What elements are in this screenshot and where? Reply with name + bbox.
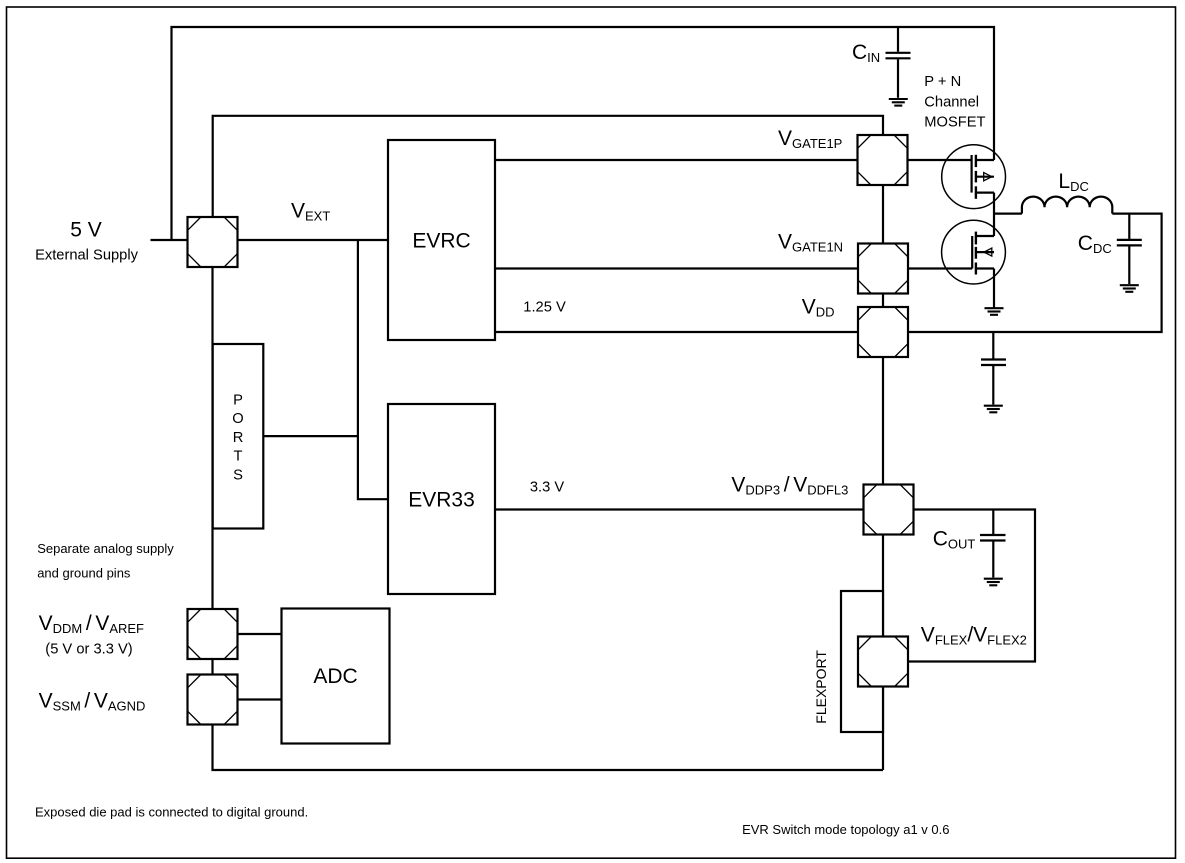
pad VSSM [188,675,238,725]
wire N-MOSFET source to ground [993,269,995,309]
wire VDDM to VSSM pad [211,659,213,675]
wire VDDP3 right loop to VFLEX pad [908,510,1035,662]
svg-text:(5 V or 3.3 V): (5 V or 3.3 V) [45,642,132,658]
svg-text:External Supply: External Supply [35,248,139,264]
wire MOSFET midpoint node [993,193,995,236]
svg-text:P: P [233,393,243,409]
svg-text:O: O [232,411,243,427]
svg-text:and ground pins: and ground pins [37,566,131,581]
wire pad VGATE1N to pad VDD [882,294,884,308]
svg-text:5 V: 5 V [70,219,102,242]
wire pad VDDP3 down to pad VFLEX [882,535,884,637]
capacitor COUT [980,510,1006,578]
svg-text:R: R [233,430,244,446]
wire VGATE1N pad to N-MOSFET gate [908,267,972,269]
pad VDDP3 [864,485,914,535]
svg-text:T: T [234,449,243,465]
svg-text:Exposed die pad is connected t: Exposed die pad is connected to digital … [35,805,308,820]
wire VFLEX pad down to bottom rail [882,687,884,771]
svg-text:3.3 V: 3.3 V [530,479,564,495]
wire ADC to VSSM pad [238,698,282,700]
pad VGATE1P [858,135,908,185]
svg-text:1.25 V: 1.25 V [523,299,566,315]
pad VGATE1N [858,244,908,294]
svg-text:EVR Switch mode topology a1 v: EVR Switch mode topology a1 v 0.6 [742,822,949,837]
wire pad VDD down to pad VDDP3 [882,357,884,485]
svg-text:MOSFET: MOSFET [924,115,985,131]
transistor Q2 N-channel MOSFET [942,220,1006,284]
block EVR33 [388,404,495,594]
wire EVR33 3.3V to VDDP3 pad [495,508,864,510]
capacitor CDC [1117,214,1142,284]
wire top supply rail to MOSFET drain [172,27,995,240]
wire VEXT pad top to VGATE1P pad top rail [213,116,883,217]
wire EVRC 1.25V to VDD pad [495,331,858,333]
ground at N-MOSFET source [985,308,1004,315]
wire 5V external supply lead [151,239,188,241]
wire PORTS to branch [263,435,358,437]
wire EVRC to VGATE1N pad [495,267,858,269]
wire pad VGATE1P to pad VGATE1N [882,185,884,244]
capacitor CIN [886,27,911,98]
block PORTS [213,344,264,529]
pad VDD [858,307,908,357]
transistor Q1 P-channel MOSFET [942,145,1006,209]
svg-text:EVR33: EVR33 [408,489,475,512]
svg-text:S: S [233,467,243,483]
wire VEXT branch down to EVR33 [358,240,388,499]
block EVRC [388,140,495,340]
block FLEXPORT [841,591,883,732]
wire node VEXT to EVRC [238,239,389,241]
svg-text:ADC: ADC [313,665,357,688]
pad VDDM [188,609,238,659]
block ADC [282,609,390,744]
svg-text:EVRC: EVRC [412,230,470,253]
wire VDD pad right to LDC output node [908,214,1162,332]
svg-text:FLEXPORT: FLEXPORT [813,650,829,724]
wire midpoint to inductor [994,213,1022,215]
wire left rail pad1 bottom to VDDM pad [211,267,213,609]
svg-text:Channel: Channel [924,94,979,110]
wire VGATE1P pad to P-MOSFET gate [908,159,972,161]
svg-text:P + N: P + N [924,74,961,90]
wire VSSM down and bottom ground rail [213,725,884,771]
ground at COUT [984,579,1003,586]
wire ADC to VDDM pad [238,633,282,635]
wire EVRC to VGATE1P pad [495,159,858,161]
ground at CIN [889,99,908,106]
ground at CDC [1120,285,1139,292]
pad VFLEX [858,637,908,687]
ground below VDD capacitor [984,406,1003,413]
svg-text:Separate analog supply: Separate analog supply [37,541,174,556]
capacitor at VDD rail [981,332,1006,405]
inductor LDC [1022,197,1112,214]
pad 5V external supply [188,217,238,267]
